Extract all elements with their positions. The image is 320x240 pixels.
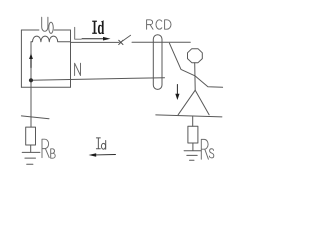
wire drop to person xyxy=(169,43,222,87)
current arrow up xyxy=(29,53,33,59)
resistor RS xyxy=(188,126,198,143)
current arrow down (through person) xyxy=(176,85,178,95)
label RCD xyxy=(147,20,171,29)
transformer box (source) xyxy=(21,30,70,87)
earth surface line right xyxy=(156,115,222,117)
earth surface line left xyxy=(21,116,49,119)
wire neutral vertical xyxy=(30,42,32,127)
person head xyxy=(188,49,203,63)
label Id bottom xyxy=(96,138,105,149)
label RB xyxy=(42,139,55,158)
label Id top arrow xyxy=(82,38,104,40)
switch blade xyxy=(122,35,130,41)
person legs xyxy=(178,90,209,115)
label N xyxy=(75,63,81,75)
ground RB xyxy=(22,152,40,164)
junction dot xyxy=(29,78,33,82)
label RS xyxy=(201,139,214,159)
label Id top text xyxy=(92,20,104,34)
wire L conductor xyxy=(71,41,120,43)
wire person ground xyxy=(192,116,194,126)
wire RS to ground xyxy=(192,143,194,151)
return current arrow Id xyxy=(96,154,116,156)
label L xyxy=(75,27,82,39)
wire RB to ground xyxy=(30,145,32,152)
person body xyxy=(194,63,197,90)
switch fault x xyxy=(119,40,123,44)
wire N conductor xyxy=(31,78,165,81)
ground RS xyxy=(184,151,201,161)
secondary coil winding xyxy=(31,36,71,42)
label U0 xyxy=(42,17,54,33)
resistor RB xyxy=(26,127,36,145)
RCD toroid xyxy=(153,35,162,90)
